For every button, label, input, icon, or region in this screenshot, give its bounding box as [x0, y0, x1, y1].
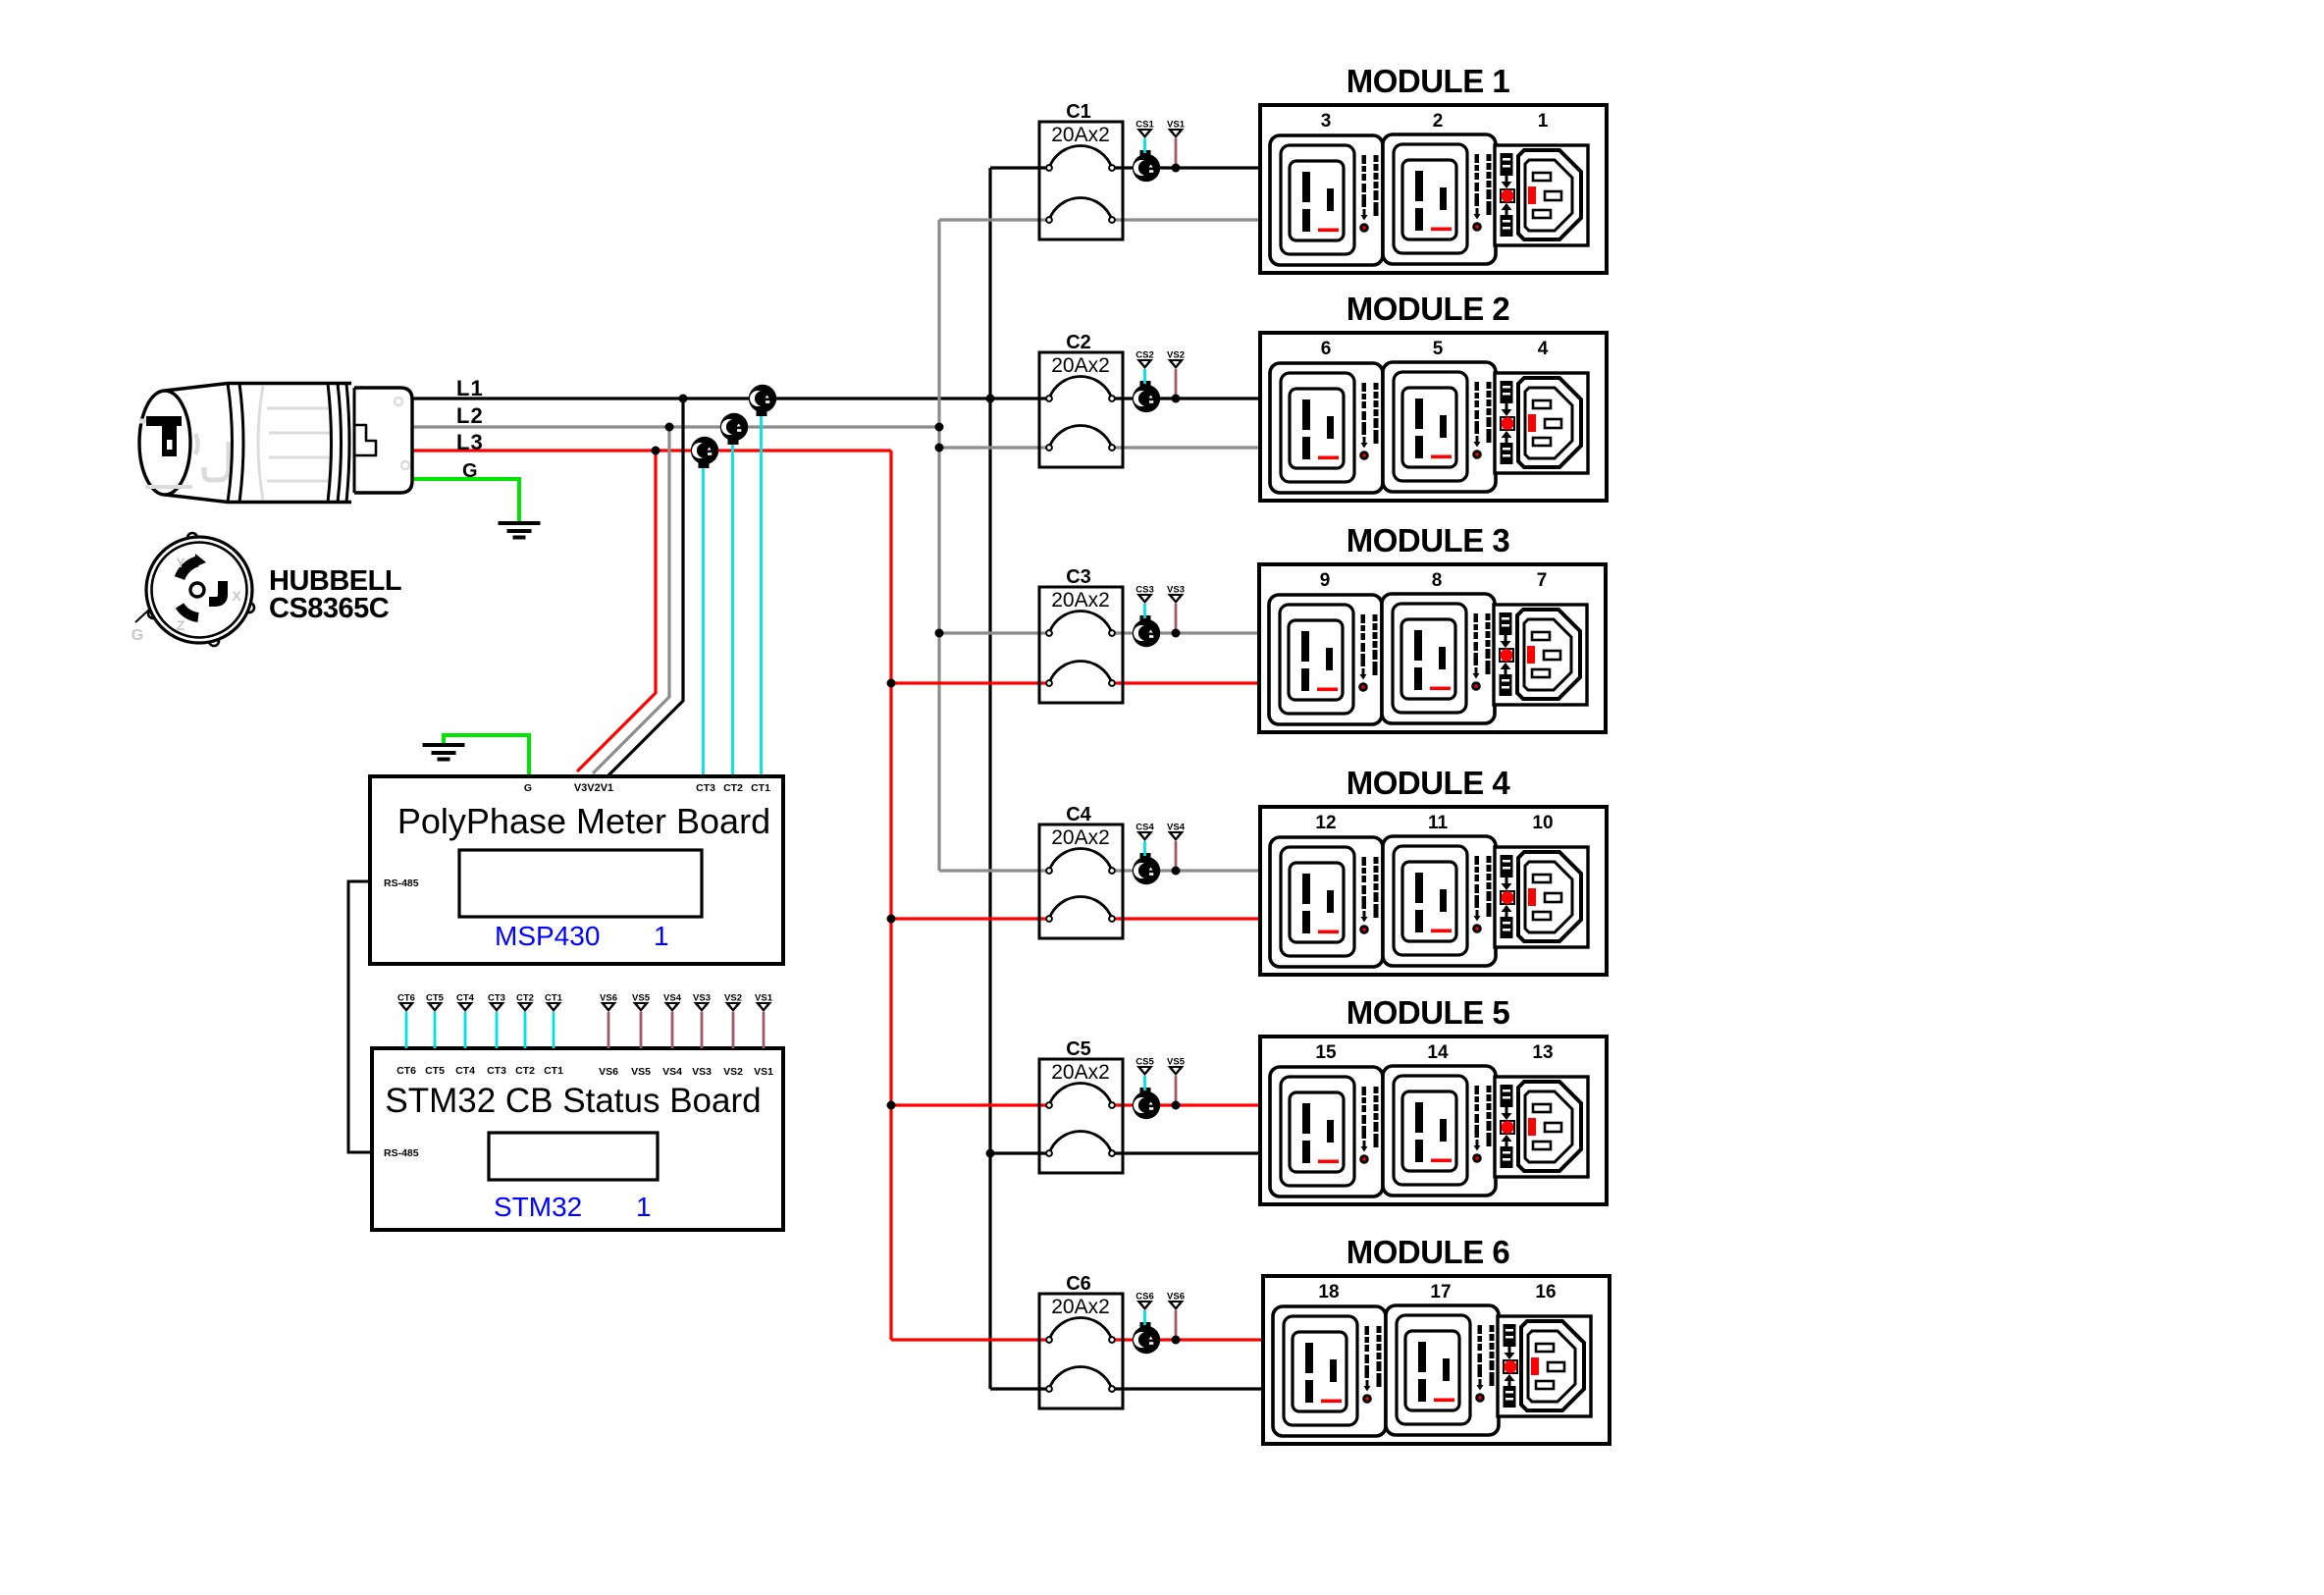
- svg-text:20Ax2: 20Ax2: [1051, 826, 1110, 849]
- svg-text:VS6: VS6: [1167, 1292, 1185, 1303]
- module MODULE 5 (outlet bank): [1260, 1037, 1607, 1204]
- net tag CS4: [1136, 823, 1154, 857]
- svg-text:1: 1: [1538, 111, 1549, 132]
- svg-text:CT2: CT2: [516, 993, 534, 1004]
- svg-text:MODULE 2: MODULE 2: [1347, 291, 1510, 327]
- board U1 PolyPhase Meter Board: [370, 776, 783, 964]
- wire CT3 sense (cyan): [702, 462, 705, 775]
- wire C3 top input (gray): [939, 631, 1046, 634]
- board U2 STM32 CB Status Board: [372, 1048, 783, 1230]
- display window rectangle: [489, 1133, 658, 1180]
- svg-text:18: 18: [1318, 1282, 1339, 1303]
- bus L2 (gray vertical): [937, 220, 940, 871]
- junction L2/V2 tap: [665, 423, 674, 432]
- svg-text:MODULE 1: MODULE 1: [1347, 63, 1510, 99]
- svg-text:14: 14: [1427, 1042, 1449, 1063]
- svg-text:CS5: CS5: [1136, 1057, 1154, 1068]
- svg-text:VS1: VS1: [754, 1066, 773, 1078]
- svg-text:RS-485: RS-485: [384, 1147, 419, 1159]
- net tag CS5: [1136, 1057, 1154, 1091]
- svg-text:L3: L3: [456, 430, 484, 454]
- module MODULE 2 (outlet bank): [1260, 333, 1607, 501]
- module MODULE 6 (outlet bank): [1263, 1276, 1610, 1444]
- svg-text:X: X: [232, 588, 241, 604]
- junction VS3 tap: [1172, 629, 1181, 638]
- junction L1/bus: [986, 395, 995, 403]
- svg-text:STM32 CB Status Board: STM32 CB Status Board: [385, 1082, 761, 1120]
- svg-text:RS-485: RS-485: [384, 877, 419, 889]
- circuit breaker C2 (20Ax2): [1039, 352, 1123, 467]
- svg-text:VS4: VS4: [663, 993, 682, 1004]
- svg-text:CT4: CT4: [456, 993, 475, 1004]
- svg-text:C5: C5: [1066, 1038, 1091, 1060]
- current transformer CS5 on breaker C5 output: [1133, 1088, 1160, 1119]
- junction black bus / C5: [986, 1149, 995, 1158]
- wire C4 output bottom (red) to module 4: [1115, 917, 1260, 920]
- svg-text:Y: Y: [176, 555, 185, 570]
- ground (plug G): [499, 523, 541, 538]
- svg-text:L1: L1: [456, 376, 484, 400]
- svg-text:5: 5: [1433, 339, 1444, 359]
- circuit breaker C3 (20Ax2): [1039, 587, 1123, 703]
- svg-text:V3V2V1: V3V2V1: [574, 782, 613, 794]
- svg-text:CS4: CS4: [1136, 823, 1154, 833]
- junction gray bus / C2: [935, 444, 944, 452]
- wire C5 output top (red) to module 5: [1115, 1103, 1260, 1106]
- junction VS4 tap: [1172, 867, 1181, 876]
- net tag VS2: [1167, 350, 1185, 399]
- wire C4 output top (gray) to module 4: [1115, 869, 1260, 872]
- junction VS2 tap: [1172, 395, 1181, 403]
- net tag VS1: [1167, 120, 1186, 169]
- circuit breaker C1 (20Ax2): [1039, 122, 1123, 239]
- svg-text:CS2: CS2: [1136, 350, 1153, 361]
- svg-text:20Ax2: 20Ax2: [1051, 1296, 1110, 1318]
- junction VS5 tap: [1172, 1101, 1181, 1110]
- net tag VS3: [693, 993, 711, 1049]
- svg-text:10: 10: [1532, 813, 1553, 833]
- junction L2/bus: [935, 423, 944, 432]
- wire C6 bottom input (black): [990, 1387, 1046, 1390]
- svg-text:CS3: CS3: [1136, 585, 1153, 596]
- svg-text:CT1: CT1: [544, 1065, 563, 1077]
- svg-text:CT5: CT5: [425, 1065, 445, 1077]
- net tag VS1: [755, 993, 773, 1049]
- wire C1 output bottom (gray) to module 1: [1115, 218, 1260, 221]
- svg-text:MODULE 3: MODULE 3: [1347, 522, 1510, 558]
- net tag VS4: [663, 993, 682, 1049]
- svg-text:CT6: CT6: [396, 1065, 416, 1077]
- svg-text:Z: Z: [177, 617, 185, 633]
- svg-text:CT2: CT2: [723, 782, 743, 794]
- svg-text:15: 15: [1315, 1042, 1337, 1063]
- svg-text:VS3: VS3: [693, 993, 711, 1004]
- svg-text:CT1: CT1: [751, 782, 770, 794]
- wire CT1 sense (cyan): [760, 410, 763, 775]
- current transformer CS2 on breaker C2 output: [1133, 381, 1160, 412]
- junction gray bus / C3: [935, 629, 944, 638]
- svg-text:9: 9: [1320, 570, 1331, 591]
- net tag VS3: [1167, 585, 1185, 634]
- net tag CT2: [516, 993, 534, 1049]
- junction VS6 tap: [1172, 1336, 1181, 1345]
- svg-text:8: 8: [1432, 570, 1443, 591]
- svg-text:STM32: STM32: [494, 1192, 582, 1222]
- svg-text:CT5: CT5: [426, 993, 445, 1004]
- wire C1 top input (black): [990, 166, 1046, 169]
- svg-text:C2: C2: [1066, 332, 1091, 353]
- svg-text:1: 1: [654, 921, 669, 951]
- wire C6 top input (red): [891, 1338, 1046, 1341]
- wire C2 output bottom (gray) to module 2: [1115, 446, 1260, 449]
- svg-text:VS3: VS3: [1167, 585, 1185, 596]
- svg-text:4: 4: [1538, 339, 1549, 359]
- wire RS-485 between boards: [348, 881, 373, 1152]
- current transformer CS3 on breaker C3 output: [1133, 615, 1160, 647]
- svg-text:C6: C6: [1066, 1273, 1091, 1295]
- wire C2 bottom input (gray): [939, 446, 1046, 449]
- wire C5 top input (red): [891, 1103, 1046, 1106]
- svg-text:VS6: VS6: [600, 993, 617, 1004]
- wire C3 bottom input (red): [891, 681, 1046, 684]
- wire CT2 sense (cyan): [731, 439, 734, 775]
- svg-text:VS2: VS2: [1167, 350, 1185, 361]
- svg-text:CT4: CT4: [455, 1065, 475, 1077]
- svg-text:CT1: CT1: [545, 993, 563, 1004]
- module MODULE 4 (outlet bank): [1260, 807, 1607, 975]
- net tag VS2: [724, 993, 742, 1049]
- wire C4 bottom input (red): [891, 917, 1046, 920]
- ghost pin labels Y X Z G: [132, 555, 242, 644]
- circuit breaker C6 (20Ax2): [1039, 1294, 1123, 1409]
- svg-text:VS3: VS3: [692, 1066, 712, 1078]
- svg-text:17: 17: [1430, 1282, 1451, 1303]
- svg-text:20Ax2: 20Ax2: [1051, 589, 1110, 611]
- net tag VS6: [1167, 1292, 1185, 1341]
- svg-text:VS1: VS1: [1167, 120, 1186, 131]
- svg-text:MSP430: MSP430: [495, 921, 600, 951]
- svg-text:G: G: [524, 782, 532, 794]
- current transformer CS4 on breaker C4 output: [1133, 853, 1160, 884]
- display window rectangle: [459, 850, 702, 917]
- wire C3 output bottom (red) to module 3: [1115, 681, 1260, 684]
- svg-text:3: 3: [1321, 111, 1332, 132]
- wire L1 (black) from plug to C2: [412, 397, 1046, 399]
- svg-text:G: G: [132, 627, 143, 644]
- svg-text:MODULE 5: MODULE 5: [1347, 994, 1510, 1031]
- svg-text:PolyPhase Meter Board: PolyPhase Meter Board: [397, 801, 770, 841]
- bus L1 (black vertical): [988, 168, 991, 1389]
- wire C1 bottom input (gray): [939, 218, 1046, 221]
- ground (meter board): [423, 745, 465, 760]
- wire C6 output top (red) to module 6: [1115, 1338, 1263, 1341]
- svg-text:7: 7: [1537, 570, 1548, 591]
- wire L3 (red) from plug to red bus: [412, 449, 891, 452]
- net tag VS5: [1167, 1057, 1186, 1106]
- svg-text:C4: C4: [1066, 804, 1091, 825]
- wire C1 output top (black) to module 1: [1115, 166, 1260, 169]
- net tag VS4: [1167, 823, 1186, 872]
- svg-text:2: 2: [1433, 111, 1444, 132]
- svg-text:VS2: VS2: [723, 1066, 743, 1078]
- svg-text:CS6: CS6: [1136, 1292, 1153, 1303]
- junction red bus / C3: [887, 679, 896, 688]
- wire G (green) meter board to ground: [444, 735, 529, 775]
- net tag CT6: [397, 993, 415, 1049]
- svg-text:C1: C1: [1066, 101, 1091, 123]
- svg-text:20Ax2: 20Ax2: [1051, 124, 1110, 146]
- net tag CS1: [1136, 120, 1154, 154]
- svg-text:CT3: CT3: [696, 782, 715, 794]
- svg-text:VS2: VS2: [724, 993, 742, 1004]
- svg-text:6: 6: [1321, 339, 1332, 359]
- junction red bus / C5: [887, 1101, 896, 1110]
- svg-text:16: 16: [1535, 1282, 1556, 1303]
- svg-text:20Ax2: 20Ax2: [1051, 354, 1110, 377]
- svg-text:CS8365C: CS8365C: [269, 593, 390, 624]
- label STM32 1 (blue): [494, 1192, 652, 1222]
- net tag CS6: [1136, 1292, 1153, 1326]
- module MODULE 1 (outlet bank): [1260, 105, 1607, 273]
- net tag CT5: [426, 993, 445, 1049]
- current transformer CT1 on L1: [749, 385, 776, 416]
- svg-text:VS5: VS5: [1167, 1057, 1186, 1068]
- junction L3/V3 tap: [652, 447, 660, 455]
- svg-text:CT3: CT3: [487, 1065, 506, 1077]
- junction L1/V1 tap: [679, 395, 688, 403]
- junction VS1 tap: [1172, 164, 1181, 173]
- svg-text:13: 13: [1532, 1042, 1553, 1063]
- bus L3 (red vertical): [889, 451, 892, 1340]
- svg-text:VS4: VS4: [662, 1066, 682, 1078]
- net tag VS5: [632, 993, 651, 1049]
- svg-text:VS1: VS1: [755, 993, 773, 1004]
- svg-text:L2: L2: [456, 403, 484, 428]
- svg-text:MODULE 6: MODULE 6: [1347, 1234, 1510, 1270]
- svg-text:CT3: CT3: [488, 993, 505, 1004]
- svg-text:CT6: CT6: [397, 993, 415, 1004]
- current transformer CT2 on L2: [720, 413, 748, 445]
- svg-text:G: G: [462, 460, 478, 482]
- svg-text:CT2: CT2: [515, 1065, 535, 1077]
- current transformer CS6 on breaker C6 output: [1133, 1322, 1160, 1354]
- circuit breaker C5 (20Ax2): [1039, 1059, 1123, 1173]
- svg-text:MODULE 4: MODULE 4: [1347, 765, 1511, 801]
- wire L2 (gray) from plug to gray bus: [412, 425, 939, 428]
- net tag CS2: [1136, 350, 1153, 385]
- current transformer CT3 on L3: [691, 437, 718, 468]
- svg-text:C3: C3: [1066, 566, 1091, 588]
- wire C3 output top (gray) to module 3: [1115, 631, 1260, 634]
- svg-text:VS6: VS6: [599, 1066, 618, 1078]
- net tag CT4: [456, 993, 475, 1049]
- wire C2 output top (black) to module 2: [1115, 397, 1260, 399]
- net tag CT3: [488, 993, 505, 1049]
- svg-text:20Ax2: 20Ax2: [1051, 1061, 1110, 1084]
- svg-text:VS4: VS4: [1167, 823, 1186, 833]
- wire G (green) from plug to ground: [410, 479, 519, 523]
- svg-text:12: 12: [1315, 813, 1336, 833]
- label MSP430 1 (blue): [495, 921, 669, 951]
- wire V3 sense (red) to meter board: [577, 451, 656, 771]
- svg-text:VS5: VS5: [632, 993, 651, 1004]
- wire C4 top input (gray): [939, 869, 1046, 872]
- net tag VS6: [600, 993, 617, 1049]
- wire C5 bottom input (black): [990, 1151, 1046, 1154]
- wire C6 output bottom (black) to module 6: [1115, 1387, 1263, 1390]
- net tag CS3: [1136, 585, 1153, 619]
- junction red bus / C4: [887, 915, 896, 924]
- wire V2 sense (gray) to meter board: [593, 427, 669, 773]
- svg-text:1: 1: [636, 1192, 652, 1222]
- wire V1 sense (black) to meter board: [608, 399, 683, 775]
- module MODULE 3 (outlet bank): [1259, 564, 1606, 732]
- plug P1 HUBBELL CS8365C (side view): [139, 384, 412, 503]
- plug face view HUBBELL CS8365C: [135, 533, 254, 646]
- svg-text:11: 11: [1428, 813, 1449, 833]
- net tag CT1: [545, 993, 563, 1049]
- circuit breaker C4 (20Ax2): [1039, 824, 1123, 938]
- wire C5 output bottom (black) to module 5: [1115, 1151, 1260, 1154]
- current transformer CS1 on breaker C1 output: [1133, 150, 1160, 182]
- svg-text:VS5: VS5: [631, 1066, 651, 1078]
- svg-text:CS1: CS1: [1136, 120, 1154, 131]
